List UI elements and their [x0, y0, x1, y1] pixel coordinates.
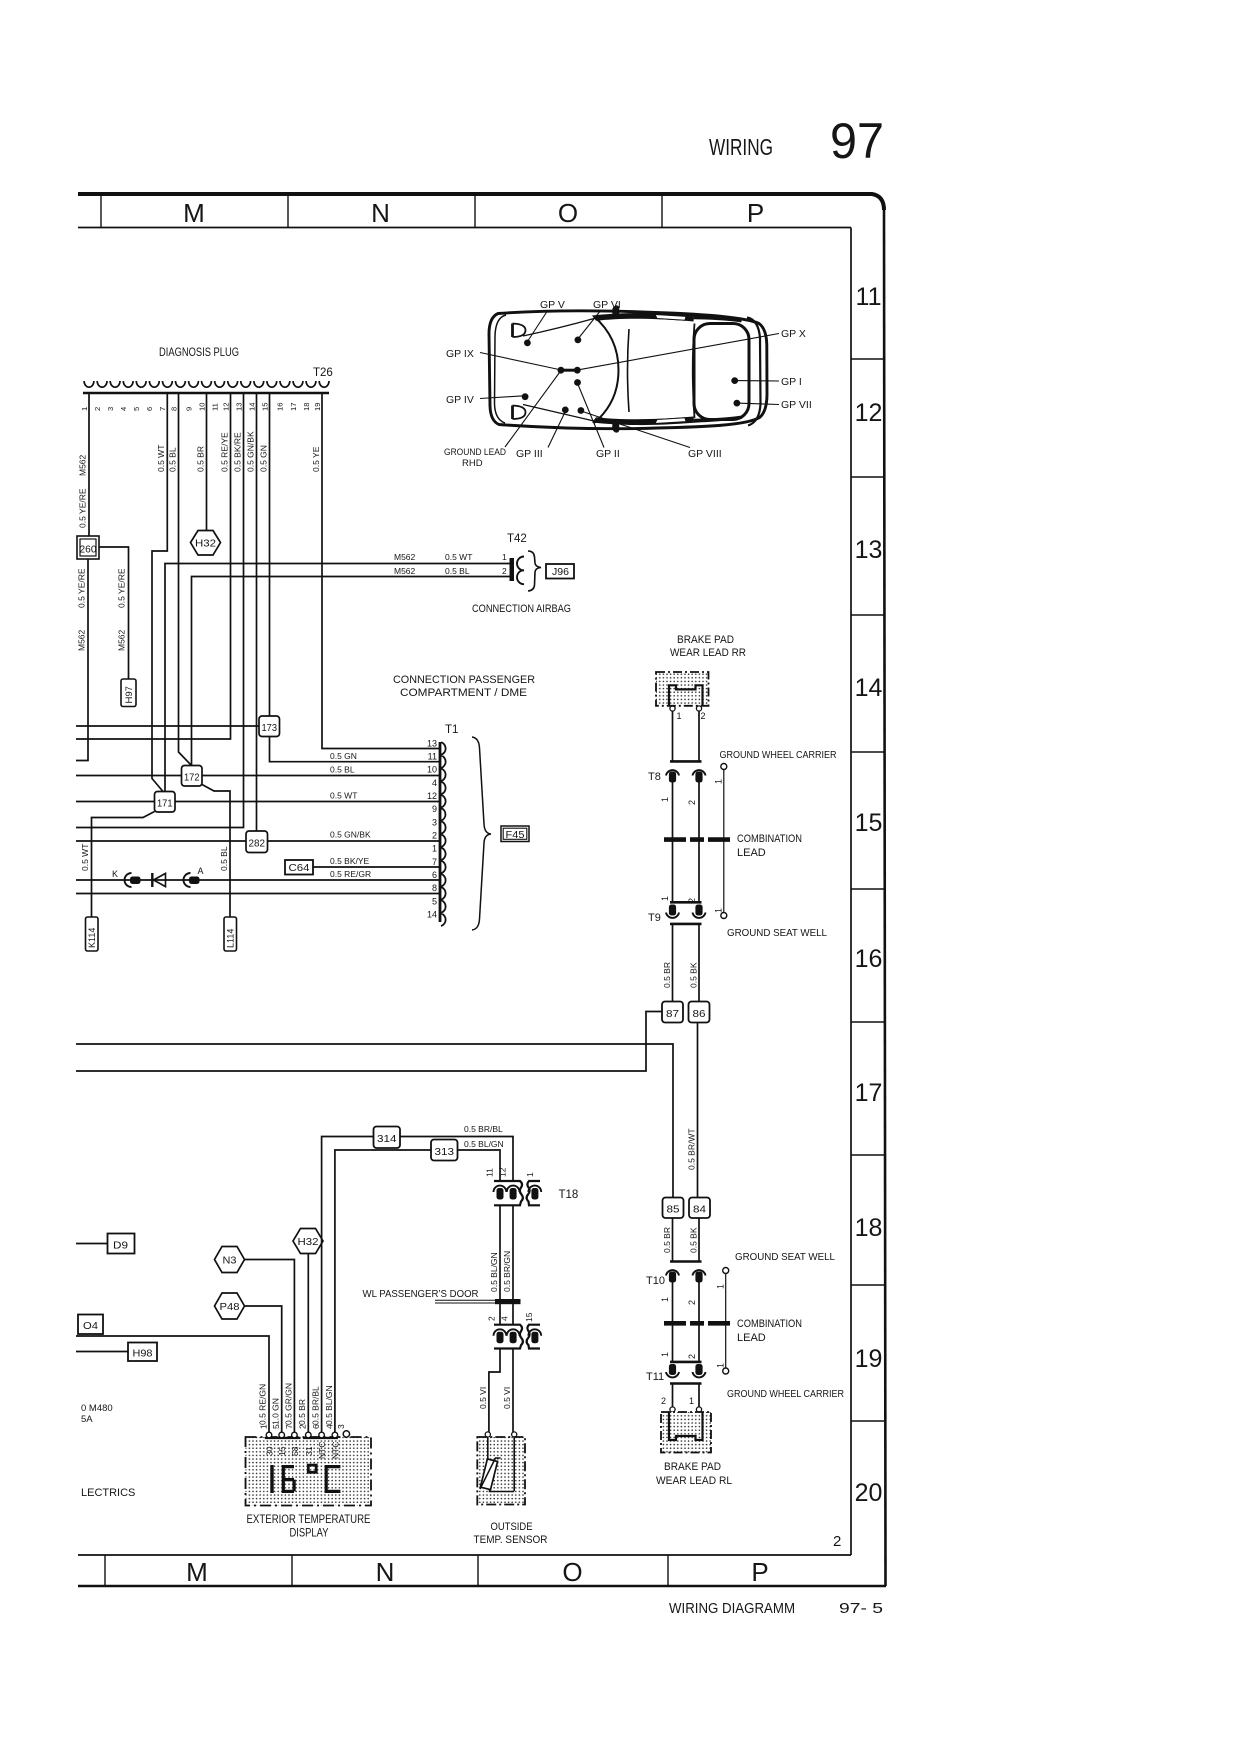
svg-text:2: 2	[298, 1424, 308, 1429]
NTC resistor R (outside temp sensor)	[487, 1437, 489, 1459]
svg-text:0.5 VI: 0.5 VI	[502, 1387, 512, 1409]
svg-text:0.5 GN/BK: 0.5 GN/BK	[246, 431, 256, 472]
wire H98 to page edge	[76, 1351, 128, 1353]
svg-text:H32: H32	[298, 1236, 319, 1248]
svg-text:T1: T1	[445, 724, 458, 736]
exterior temperature display body	[246, 1437, 372, 1506]
svg-text:313: 313	[435, 1146, 455, 1158]
svg-text:260: 260	[80, 544, 97, 556]
brace to J96	[528, 551, 541, 591]
connector T9 socket right	[695, 905, 702, 916]
svg-text:2: 2	[487, 1316, 497, 1321]
svg-text:OUTSIDE: OUTSIDE	[491, 1521, 533, 1533]
svg-text:WEAR LEAD RR: WEAR LEAD RR	[670, 647, 746, 659]
svg-text:86: 86	[693, 1008, 706, 1020]
box O4	[78, 1315, 103, 1335]
svg-text:M562: M562	[78, 454, 88, 476]
box D9	[108, 1234, 135, 1254]
svg-text:T8: T8	[648, 771, 661, 783]
svg-text:6: 6	[145, 407, 154, 411]
svg-text:0.5 BR/GN: 0.5 BR/GN	[502, 1251, 512, 1292]
box 84	[689, 1198, 710, 1219]
svg-text:2: 2	[701, 711, 706, 721]
box H97	[121, 679, 136, 707]
box 171	[155, 792, 176, 813]
svg-text:M562: M562	[117, 629, 127, 651]
wire H32 to display pin2	[307, 1254, 309, 1434]
svg-text:0.5 BR: 0.5 BR	[662, 962, 672, 988]
wire 172 diagonal to L114 drop	[202, 785, 230, 918]
svg-text:T9: T9	[648, 912, 661, 924]
box 260	[77, 536, 99, 559]
svg-text:WIRING DIAGRAMM: WIRING DIAGRAMM	[669, 1600, 795, 1617]
svg-text:6: 6	[432, 870, 437, 880]
svg-text:19: 19	[855, 1345, 883, 1373]
connector T9 lower bar	[670, 923, 702, 926]
svg-text:TEMP. SENSOR: TEMP. SENSOR	[474, 1534, 548, 1546]
svg-text:1: 1	[714, 908, 724, 913]
svg-text:F45: F45	[506, 830, 525, 841]
svg-text:12: 12	[855, 399, 883, 427]
connector T8 socket right	[693, 770, 706, 775]
wire T26 pin7 jog to box 171	[152, 394, 167, 792]
box 173	[259, 716, 280, 737]
svg-text:0.5 BR: 0.5 BR	[297, 1399, 307, 1425]
svg-text:9: 9	[432, 804, 437, 814]
svg-text:15: 15	[277, 1446, 287, 1456]
border bottom outer line	[78, 1585, 886, 1588]
box H98	[128, 1343, 157, 1362]
svg-text:N3: N3	[223, 1255, 237, 1267]
svg-text:0.5 RE/GR: 0.5 RE/GR	[330, 869, 371, 879]
box K114	[86, 917, 99, 951]
wire T9 pin2 to box 86	[698, 924, 700, 1002]
svg-text:14: 14	[427, 910, 437, 920]
wire from edge up into box 87	[76, 1012, 662, 1072]
svg-text:WIRING: WIRING	[709, 134, 773, 160]
car hood fender lines	[523, 319, 594, 422]
svg-text:4: 4	[500, 1316, 510, 1321]
wire 171 diagonal to K114 drop	[92, 812, 155, 918]
svg-text:7: 7	[432, 857, 437, 867]
svg-text:GP II: GP II	[596, 448, 620, 460]
svg-text:L114: L114	[226, 929, 236, 948]
svg-text:T11: T11	[646, 1371, 664, 1383]
svg-text:11: 11	[210, 403, 219, 411]
svg-text:30: 30	[265, 1446, 275, 1456]
svg-text:LEAD: LEAD	[737, 1332, 766, 1344]
svg-text:314: 314	[377, 1133, 397, 1145]
svg-text:1: 1	[660, 1352, 670, 1357]
svg-text:0.5 WT: 0.5 WT	[80, 844, 90, 871]
connector T9 socket left	[669, 905, 676, 916]
svg-text:1: 1	[716, 1284, 726, 1289]
svg-text:T18: T18	[559, 1189, 579, 1201]
svg-text:5: 5	[132, 407, 141, 411]
svg-text:COMBINATION: COMBINATION	[737, 1318, 802, 1330]
car roof front line	[628, 329, 630, 412]
svg-text:18: 18	[855, 1214, 883, 1242]
svg-text:COMBINATION: COMBINATION	[737, 833, 802, 845]
wire T8 pin2 to combination lead	[698, 783, 700, 903]
wire T42 pin1 horizontal and down to box 171	[165, 564, 511, 792]
svg-text:M: M	[183, 198, 205, 228]
svg-text:H97: H97	[124, 686, 135, 703]
svg-text:0.5 GN/BK: 0.5 GN/BK	[330, 830, 371, 840]
svg-text:4: 4	[325, 1424, 335, 1429]
svg-text:85: 85	[667, 1204, 680, 1216]
wire P48 to display pin5	[245, 1306, 282, 1433]
car side window band top	[592, 313, 694, 322]
car quarter window top	[655, 315, 686, 321]
brace T1 to F45	[472, 737, 491, 930]
wire from edge to box 173	[76, 725, 259, 727]
box 314	[374, 1127, 401, 1149]
svg-text:0.5 BL: 0.5 BL	[219, 846, 229, 871]
wire box 84 down to T10	[698, 1218, 700, 1262]
svg-text:GROUND SEAT WELL: GROUND SEAT WELL	[735, 1251, 835, 1263]
border bottom inner line	[78, 1554, 851, 1556]
svg-text:12: 12	[427, 791, 437, 801]
connector T26 pin cups	[84, 381, 329, 387]
wire T18 lower pin4 to sensor	[512, 1349, 514, 1433]
svg-text:15: 15	[524, 1312, 534, 1322]
svg-text:19: 19	[313, 403, 322, 411]
svg-text:0.5 BL/GN: 0.5 BL/GN	[464, 1139, 504, 1149]
svg-text:COMPARTMENT / DME: COMPARTMENT / DME	[400, 687, 527, 699]
wire RR pin1 down to T8	[672, 711, 674, 761]
svg-text:M: M	[186, 1557, 208, 1587]
svg-text:10: 10	[197, 403, 206, 411]
svg-text:CONNECTION AIRBAG: CONNECTION AIRBAG	[472, 603, 571, 615]
wire diode line from edge to T1 pin 6	[76, 879, 439, 881]
svg-text:H98: H98	[133, 1348, 153, 1360]
wire T26 pin13 down and left to page edge	[76, 394, 244, 828]
car headlight pods	[511, 324, 514, 420]
wire box 260 down to left stub	[76, 559, 88, 761]
connector socket A	[184, 873, 191, 887]
car mirror bottom	[612, 422, 619, 433]
connector T18 upper housing	[494, 1181, 523, 1205]
wire box 260 to H97	[99, 547, 129, 679]
svg-text:GP VII: GP VII	[781, 399, 812, 411]
svg-text:NTC: NTC	[330, 1442, 340, 1459]
svg-text:2: 2	[687, 1354, 697, 1359]
wire T8 pin1 to combination lead	[672, 783, 674, 903]
box F45	[501, 826, 529, 842]
svg-text:0.5 YE: 0.5 YE	[311, 446, 321, 472]
svg-text:K: K	[112, 869, 118, 879]
svg-text:15: 15	[855, 809, 883, 837]
wire T26 pin1 to box 260	[88, 394, 90, 536]
svg-text:17: 17	[855, 1079, 883, 1107]
connector T18 lower housing	[494, 1325, 523, 1349]
wire T42 pin2 horizontal and down to box 172	[192, 577, 512, 766]
car rear window line	[693, 324, 695, 419]
border top outer line	[78, 194, 884, 210]
svg-text:2: 2	[661, 1396, 666, 1406]
svg-text:0.5 BL: 0.5 BL	[330, 765, 355, 775]
svg-text:0.5 BR/BL: 0.5 BR/BL	[311, 1386, 321, 1425]
svg-text:M562: M562	[394, 566, 416, 576]
car quarter window bottom	[655, 418, 686, 424]
connector T9 upper bar	[670, 901, 702, 904]
wire box 85 down to T10	[672, 1218, 674, 1262]
svg-text:GP III: GP III	[516, 448, 543, 460]
T18 lower socket pin4	[507, 1329, 520, 1335]
svg-text:M562: M562	[394, 552, 416, 562]
svg-text:GP VIII: GP VIII	[688, 448, 722, 460]
svg-text:A: A	[198, 866, 204, 876]
svg-text:0.5 RE/GN: 0.5 RE/GN	[258, 1384, 268, 1425]
svg-text:7: 7	[158, 407, 167, 411]
svg-text:P: P	[747, 198, 764, 228]
svg-text:0.5 WT: 0.5 WT	[156, 445, 166, 472]
svg-text:0.5 GN: 0.5 GN	[259, 445, 269, 472]
svg-text:DIAGNOSIS PLUG: DIAGNOSIS PLUG	[159, 345, 239, 359]
wire 0.5 GN/BK from edge through 282 to T1 pin 2	[76, 840, 439, 842]
wire 0.5 WT from edge through 171 to T1 pin 12	[76, 801, 439, 803]
wire page edge to display pin1	[76, 1336, 269, 1433]
wire box 86 down to box 84	[697, 1023, 699, 1198]
display terminals	[266, 1432, 272, 1438]
connector T8 socket left	[666, 770, 679, 775]
wire RR pin2 down to T8	[698, 711, 700, 761]
wire T26 pin10 to H32	[206, 394, 208, 530]
svg-text:1: 1	[660, 797, 670, 802]
svg-text:EXTERIOR TEMPERATURE: EXTERIOR TEMPERATURE	[247, 1514, 371, 1526]
svg-text:0.5 BK/RE: 0.5 BK/RE	[233, 432, 243, 472]
svg-text:11: 11	[856, 283, 882, 311]
hexagon P48	[215, 1293, 245, 1319]
wire T26 pin14 down to box 282	[256, 394, 258, 834]
svg-text:GP IX: GP IX	[446, 348, 474, 360]
svg-text:87: 87	[666, 1008, 679, 1020]
box 85	[663, 1198, 684, 1219]
svg-text:1.0 GN: 1.0 GN	[271, 1398, 281, 1425]
car mirror top	[612, 305, 619, 316]
svg-text:2: 2	[687, 1300, 697, 1305]
svg-text:0.5 YE/RE: 0.5 YE/RE	[78, 488, 88, 528]
wire N3 to display pin7	[245, 1260, 295, 1434]
box 172	[182, 766, 203, 787]
svg-text:0.5 BL/GN: 0.5 BL/GN	[324, 1385, 334, 1425]
svg-text:13: 13	[427, 738, 437, 748]
svg-text:0 M480: 0 M480	[81, 1403, 113, 1414]
svg-text:1: 1	[689, 1396, 694, 1406]
svg-text:97- 5: 97- 5	[839, 1600, 883, 1617]
connector T10 socket right	[693, 1270, 706, 1275]
svg-text:13: 13	[855, 536, 883, 564]
svg-text:2: 2	[833, 1533, 841, 1550]
svg-text:0.5 BK: 0.5 BK	[689, 962, 699, 988]
border top inner line	[78, 227, 851, 229]
svg-text:31: 31	[304, 1446, 314, 1456]
svg-text:RHD: RHD	[462, 458, 483, 469]
display top contact rail	[265, 1437, 338, 1439]
svg-text:D9: D9	[113, 1240, 128, 1252]
svg-text:P48: P48	[220, 1301, 240, 1313]
wire T10 pin1 to T11	[672, 1283, 674, 1362]
svg-text:P: P	[751, 1557, 768, 1587]
connector T1 spine	[439, 742, 442, 922]
svg-text:3: 3	[336, 1424, 346, 1429]
connector T10 socket left	[666, 1270, 679, 1275]
hexagon N3	[215, 1247, 245, 1273]
diode V1	[151, 873, 153, 887]
svg-text:1: 1	[660, 1297, 670, 1302]
svg-text:T26: T26	[313, 367, 333, 379]
svg-text:1: 1	[660, 896, 670, 901]
svg-text:1: 1	[432, 844, 437, 854]
svg-text:0.5 BL: 0.5 BL	[168, 447, 178, 472]
wire display pin4 up through 313 to T18 pin11	[335, 1150, 500, 1433]
svg-text:0.5 YE/RE: 0.5 YE/RE	[77, 568, 87, 608]
svg-text:0.5 BK: 0.5 BK	[689, 1227, 699, 1253]
svg-text:0.5 BR: 0.5 BR	[662, 1227, 672, 1253]
svg-text:GP X: GP X	[781, 328, 806, 340]
brake pad wear sensor RL terminals	[670, 1407, 675, 1412]
box L114	[224, 917, 237, 951]
svg-text:3: 3	[106, 407, 115, 411]
wire display pin6 up through 314 to T18 pin12	[322, 1137, 513, 1434]
svg-text:3: 3	[432, 817, 437, 827]
svg-text:9: 9	[184, 407, 193, 411]
T1 pin sockets	[441, 742, 446, 926]
svg-text:J96: J96	[552, 567, 569, 578]
combination lead crossbar lower	[664, 1321, 732, 1326]
svg-text:282: 282	[249, 838, 266, 850]
svg-text:1: 1	[714, 779, 724, 784]
border right row separators	[851, 359, 884, 1421]
svg-text:15: 15	[260, 403, 269, 411]
svg-text:1: 1	[525, 1172, 535, 1177]
svg-text:C64: C64	[289, 863, 310, 874]
wire T18 pin12 down to door bar	[512, 1205, 514, 1324]
svg-text:T10: T10	[646, 1275, 665, 1287]
svg-text:12: 12	[498, 1167, 508, 1177]
svg-text:84: 84	[693, 1204, 706, 1216]
svg-text:0.5 GN: 0.5 GN	[330, 751, 357, 761]
svg-text:LECTRICS: LECTRICS	[81, 1487, 135, 1499]
connector T11 socket left	[669, 1364, 676, 1375]
svg-text:1: 1	[80, 407, 89, 411]
svg-text:0.5 BK/YE: 0.5 BK/YE	[330, 856, 370, 866]
svg-text:16: 16	[276, 403, 285, 411]
svg-text:4: 4	[432, 778, 437, 788]
wire T18 lower pin2 jog to sensor	[489, 1349, 500, 1433]
svg-text:LEAD: LEAD	[737, 847, 766, 859]
svg-text:0.5 WT: 0.5 WT	[330, 791, 357, 801]
svg-text:1: 1	[677, 711, 682, 721]
hexagon H32 lower	[293, 1229, 323, 1254]
svg-text:1: 1	[716, 1363, 726, 1368]
svg-text:WEAR LEAD RL: WEAR LEAD RL	[656, 1475, 732, 1487]
wire T11 pin1 to RL sensor	[672, 1384, 674, 1408]
display 16 C segments	[270, 1465, 273, 1493]
combination lead crossbar upper	[664, 837, 732, 842]
svg-text:GP I: GP I	[781, 376, 802, 388]
hexagon H32 upper	[191, 531, 221, 556]
brake pad wear sensor RR body	[656, 672, 709, 706]
svg-text:14: 14	[855, 674, 883, 702]
svg-text:K114: K114	[87, 928, 97, 948]
svg-text:0.5 BL: 0.5 BL	[445, 566, 470, 576]
svg-text:0.5 BR/WT: 0.5 BR/WT	[687, 1128, 697, 1170]
svg-text:58: 58	[290, 1446, 300, 1456]
svg-text:171: 171	[157, 798, 173, 810]
car side window band bottom	[592, 417, 694, 426]
svg-text:0.5 WT: 0.5 WT	[445, 552, 472, 562]
border right inner line	[850, 228, 852, 1556]
box C64	[285, 860, 313, 875]
svg-text:11: 11	[485, 1168, 495, 1177]
svg-text:0.5 YE/RE: 0.5 YE/RE	[117, 568, 127, 608]
svg-text:20: 20	[855, 1479, 883, 1507]
connector T8 bar	[670, 760, 702, 763]
car front inner line	[495, 315, 507, 423]
svg-text:0.5 BR/BL: 0.5 BR/BL	[464, 1124, 503, 1134]
leader lines	[480, 310, 779, 448]
door divider thick bar	[495, 1299, 521, 1304]
brake pad RR terminals	[670, 706, 675, 711]
border bottom cell ticks	[105, 1555, 668, 1586]
T18 lower socket pin2	[494, 1329, 507, 1335]
svg-text:T42: T42	[507, 533, 527, 545]
svg-text:N: N	[376, 1557, 395, 1587]
svg-text:8: 8	[169, 407, 178, 411]
car top view outline	[489, 311, 767, 429]
svg-text:2: 2	[502, 566, 507, 576]
wire from edge to T1 pin 8	[76, 893, 439, 895]
svg-text:H32: H32	[195, 538, 216, 550]
wire 0.5 BL from edge through 172 to T1 pin 10	[76, 775, 439, 777]
svg-text:GP IV: GP IV	[446, 394, 474, 406]
svg-text:GP V: GP V	[540, 299, 565, 311]
wire C64 to T1 pin 7	[313, 866, 439, 868]
wire T26 pin15 down through box 173 to T1 pin 11	[270, 394, 440, 762]
svg-text:1: 1	[259, 1424, 269, 1429]
connector T11 socket right	[695, 1364, 702, 1375]
svg-text:5A: 5A	[81, 1414, 93, 1425]
svg-text:0.5 BR: 0.5 BR	[196, 446, 206, 472]
connector T11 lower bar	[670, 1382, 702, 1385]
svg-text:12: 12	[221, 403, 230, 411]
svg-text:5: 5	[271, 1424, 281, 1429]
wire T26 pin19 down to T1 pin 13	[322, 394, 439, 749]
svg-text:BRAKE PAD: BRAKE PAD	[664, 1461, 721, 1473]
wire from edge to vertical 85 branch	[76, 1044, 673, 1198]
car windshield	[594, 317, 619, 424]
ground point link bar	[561, 369, 577, 372]
svg-text:O: O	[558, 198, 578, 228]
svg-text:O4: O4	[83, 1320, 98, 1332]
svg-text:5: 5	[432, 896, 437, 906]
connector T42 pin sockets	[517, 557, 524, 585]
svg-text:BRAKE PAD: BRAKE PAD	[677, 634, 734, 646]
connector T42 face bar	[510, 558, 515, 581]
connector socket K	[125, 873, 132, 887]
svg-text:0.5 VI: 0.5 VI	[478, 1387, 488, 1409]
svg-text:1: 1	[502, 552, 507, 562]
svg-text:0.5 BL/GN: 0.5 BL/GN	[489, 1252, 499, 1292]
svg-text:6: 6	[311, 1424, 321, 1429]
T18 socket pin11	[494, 1186, 507, 1192]
ground point dots	[522, 337, 741, 414]
brake pad wear sensor RL body	[661, 1412, 711, 1453]
connector T11 upper bar	[670, 1361, 702, 1364]
svg-text:17: 17	[289, 403, 298, 411]
